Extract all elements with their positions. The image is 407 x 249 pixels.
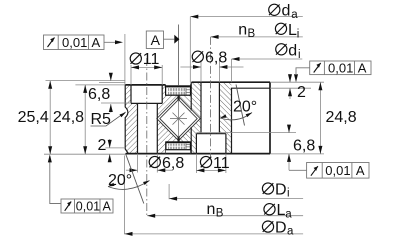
svg-text:24,8: 24,8 (326, 109, 357, 126)
svg-text:0,01: 0,01 (62, 35, 87, 50)
svg-text:B: B (248, 28, 256, 40)
svg-text:0,01: 0,01 (328, 60, 353, 75)
svg-text:11: 11 (213, 155, 230, 172)
svg-text:D: D (275, 219, 287, 236)
svg-text:L: L (277, 202, 286, 219)
svg-text:6,8: 6,8 (88, 86, 110, 103)
svg-text:L: L (288, 22, 297, 39)
svg-text:25,4: 25,4 (18, 109, 49, 126)
svg-text:6,8: 6,8 (205, 50, 227, 67)
svg-text:2: 2 (98, 137, 107, 154)
svg-text:n: n (207, 201, 216, 218)
svg-text:20°: 20° (233, 99, 257, 116)
svg-text:n: n (238, 22, 247, 39)
svg-text:i: i (297, 29, 300, 41)
svg-text:2: 2 (297, 84, 306, 101)
svg-text:6,8: 6,8 (293, 138, 315, 155)
svg-text:0,01: 0,01 (325, 163, 350, 178)
svg-text:6,8: 6,8 (162, 155, 184, 172)
svg-text:A: A (356, 163, 365, 178)
svg-text:A: A (92, 35, 101, 50)
svg-text:20°: 20° (108, 172, 132, 189)
svg-text:a: a (291, 9, 298, 21)
svg-text:D: D (275, 181, 287, 198)
svg-text:A: A (151, 32, 161, 48)
svg-text:R5: R5 (91, 111, 112, 128)
svg-text:i: i (298, 49, 301, 61)
svg-text:A: A (103, 199, 112, 213)
svg-text:A: A (358, 60, 367, 75)
svg-text:24,8: 24,8 (53, 109, 84, 126)
svg-text:i: i (287, 188, 290, 200)
svg-text:0,01: 0,01 (76, 199, 100, 213)
svg-text:B: B (216, 208, 224, 220)
svg-text:a: a (287, 226, 294, 238)
svg-text:11: 11 (143, 51, 160, 68)
svg-text:d: d (288, 42, 297, 59)
svg-text:d: d (282, 3, 291, 20)
